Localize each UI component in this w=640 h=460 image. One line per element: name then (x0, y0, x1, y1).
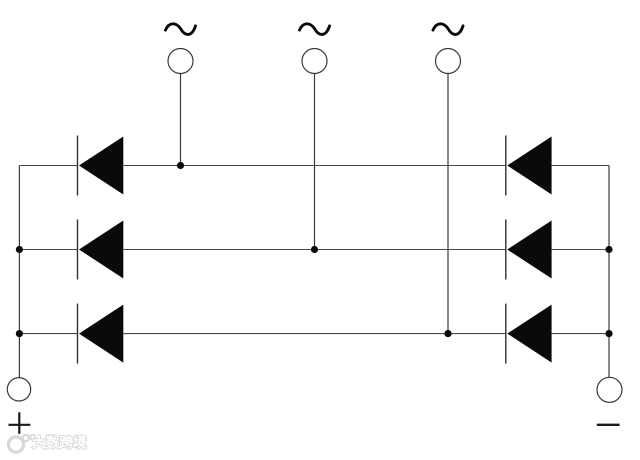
ac terminal circle phase 1 (168, 49, 193, 74)
junction: right bus / middle rail (605, 246, 612, 253)
wire: top rail left segment (19, 165, 77, 167)
watermark logo (8, 435, 35, 452)
ac source symbol ~ phase 2 (300, 24, 330, 35)
negative DC terminal circle (597, 377, 622, 402)
wire: bottom rail right segment (552, 333, 609, 335)
wire: phase 1 terminal to top rail node A (180, 74, 182, 166)
junction node A (phase1 / top rail) (177, 162, 184, 169)
wire: phase 2 terminal to middle rail node B (314, 74, 316, 250)
diode D6 (bottom right) (506, 304, 552, 364)
diode D5 (middle right) (506, 220, 552, 280)
diode D1 (top left) (78, 136, 124, 196)
diode D3 (bottom left) (78, 304, 124, 364)
junction node C (phase3 / bottom rail) (444, 330, 451, 337)
wire: top rail middle segment (123, 165, 506, 167)
ac terminal circle phase 3 (436, 49, 461, 74)
wire: phase 3 terminal to bottom rail node C (447, 74, 449, 334)
ac source symbol ~ phase 3 (433, 24, 463, 35)
wire: middle rail middle segment (123, 249, 506, 251)
diode D4 (top right) (506, 136, 552, 196)
svg-text:大数跨境: 大数跨境 (32, 434, 87, 451)
wire: bottom rail left segment (19, 333, 77, 335)
diode D2 (middle left) (78, 220, 124, 280)
label + (positive) (9, 412, 31, 434)
positive DC terminal circle (7, 378, 30, 401)
junction: right bus / bottom rail (605, 330, 612, 337)
junction node B (phase2 / middle rail) (311, 246, 318, 253)
junction: left bus / bottom rail (16, 330, 23, 337)
wire: top rail right segment (552, 165, 609, 167)
ac source symbol ~ phase 1 (166, 24, 196, 35)
label - (negative) (597, 424, 620, 426)
wire: left DC bus (positive) (18, 166, 20, 378)
wire: bottom rail middle segment (123, 333, 506, 335)
wire: middle rail left segment (19, 249, 77, 251)
junction: left bus / middle rail (16, 246, 23, 253)
wire: middle rail right segment (552, 249, 609, 251)
wire: right DC bus (negative) (608, 166, 610, 378)
ac terminal circle phase 2 (302, 49, 327, 74)
